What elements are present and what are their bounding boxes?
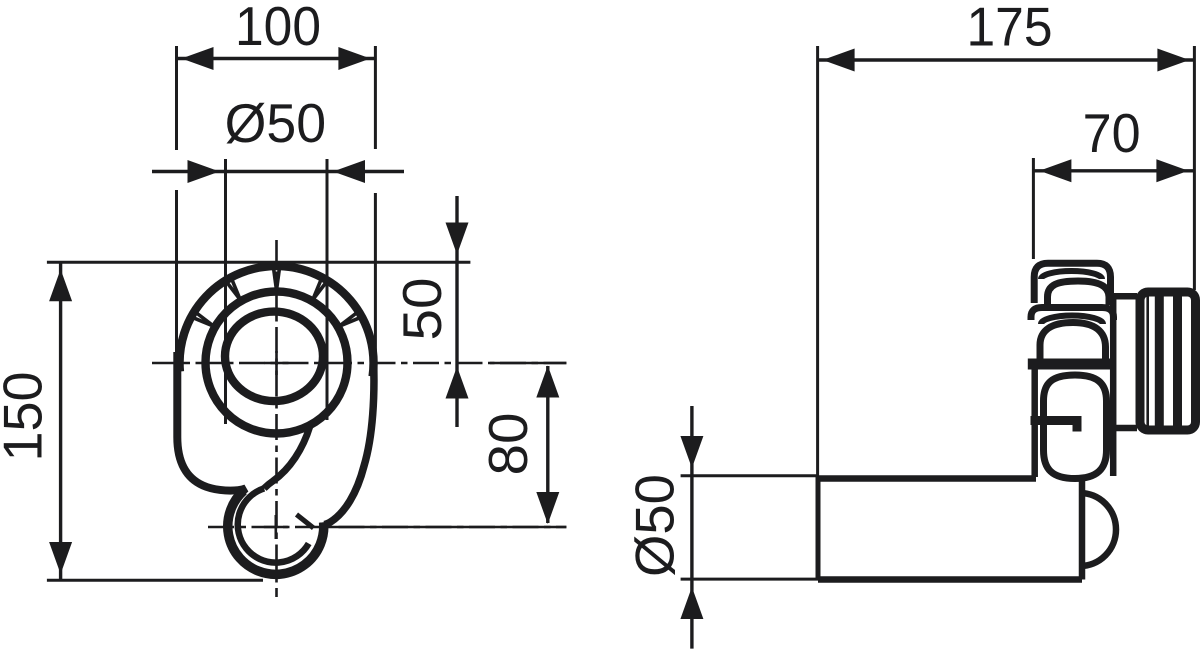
nipple rib 1 xyxy=(1155,292,1164,431)
svg-text:100: 100 xyxy=(235,0,321,57)
tube end bulge xyxy=(1080,493,1116,566)
svg-text:80: 80 xyxy=(477,413,539,476)
tail outer edge xyxy=(324,358,374,525)
dim O50 right line xyxy=(690,406,693,649)
dim O50 right extension lines xyxy=(681,476,818,579)
dim 175 line xyxy=(818,58,1195,61)
dim O50 extension lines xyxy=(226,159,328,424)
dim 50 line xyxy=(455,196,458,427)
tube left cap xyxy=(816,476,821,580)
bottom outlet circle inner xyxy=(238,488,309,562)
dim 50 arrows xyxy=(446,223,469,399)
tube bottom edge xyxy=(818,576,1082,583)
dim O50 line tails xyxy=(152,170,404,173)
dim 100 line xyxy=(177,57,376,60)
body capsule xyxy=(1044,375,1107,479)
svg-text:150: 150 xyxy=(0,372,54,462)
dome 1 xyxy=(1048,281,1110,305)
dim 175 extension lines xyxy=(818,46,1195,476)
dim 150 extension bottom xyxy=(47,579,263,582)
nut ring 1 inner arc xyxy=(1041,271,1102,279)
svg-text:70: 70 xyxy=(1083,102,1141,164)
dim 100 extension lines xyxy=(177,46,376,353)
dim 70 arrows xyxy=(1039,159,1188,182)
center cross C2 xyxy=(264,515,288,539)
dim 100 arrows xyxy=(182,47,371,70)
inner circle xyxy=(225,312,323,402)
nipple connect top xyxy=(1114,293,1138,300)
centerline vertical C1/C2 xyxy=(275,240,278,597)
centerline horizontal C1 xyxy=(152,362,566,365)
svg-text:Ø50: Ø50 xyxy=(225,92,327,154)
nut ring 2 inner arc xyxy=(1041,316,1103,324)
outer circle xyxy=(180,266,374,376)
hose nipple outline xyxy=(1140,292,1196,430)
nut ring 2 xyxy=(1031,308,1114,321)
dim O50 right arrows xyxy=(680,436,703,619)
svg-text:Ø50: Ø50 xyxy=(624,474,686,577)
dim 80 arrows xyxy=(536,366,559,525)
spiral channel inner wall xyxy=(264,426,310,488)
nipple inner thin line xyxy=(1146,294,1149,428)
body right wall xyxy=(1110,294,1117,476)
svg-text:175: 175 xyxy=(967,0,1053,58)
centerline solid extension C1 xyxy=(490,362,566,365)
nipple connect bottom xyxy=(1114,425,1138,432)
channel end slash xyxy=(297,515,314,529)
dim 150 arrows xyxy=(49,269,72,574)
middle ring circle xyxy=(206,292,348,434)
dim 150 line xyxy=(59,263,62,580)
body left wall xyxy=(1031,367,1038,477)
dome 2 xyxy=(1040,323,1106,362)
centerline solid extension C2 xyxy=(333,526,566,529)
centerline horizontal C2 xyxy=(208,526,566,529)
dim 80 line xyxy=(546,366,549,523)
dim 70 line xyxy=(1033,169,1194,172)
bottom outlet circle outer (thickening overlay) xyxy=(228,491,324,575)
band 3 xyxy=(1028,359,1112,370)
dim 70 extension line xyxy=(1032,158,1035,259)
center cross C1 xyxy=(265,351,289,375)
dim 150 extension top xyxy=(47,261,471,264)
inner tube L mark xyxy=(1031,421,1078,432)
tube top edge xyxy=(818,475,1036,482)
nipple rib 2 xyxy=(1173,292,1182,431)
dim O50 arrows xyxy=(188,160,366,183)
body pouch outline xyxy=(177,352,323,574)
tube right cap xyxy=(1079,481,1086,580)
rosette spokes xyxy=(193,268,360,327)
svg-text:50: 50 xyxy=(391,278,453,341)
nut ring 1 xyxy=(1034,263,1110,304)
dim 175 arrows xyxy=(823,49,1190,72)
